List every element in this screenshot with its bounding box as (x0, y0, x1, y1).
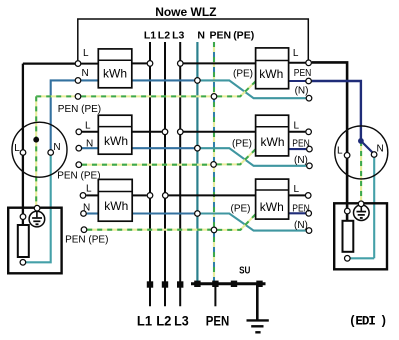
svg-text:L: L (337, 145, 343, 156)
svg-text:L3: L3 (174, 313, 189, 328)
svg-text:N: N (53, 142, 60, 153)
svg-text:L1: L1 (144, 30, 156, 42)
svg-text:(PE): (PE) (233, 30, 254, 42)
svg-text:PEN: PEN (206, 313, 230, 328)
svg-text:kWh: kWh (260, 200, 284, 214)
svg-text:): ) (380, 314, 388, 328)
svg-text:PEN: PEN (292, 139, 310, 150)
svg-text:(N): (N) (295, 86, 309, 97)
svg-text:N: N (197, 30, 205, 42)
svg-text:N: N (83, 202, 90, 213)
svg-text:PEN: PEN (294, 68, 312, 79)
svg-text:PEN: PEN (210, 30, 232, 42)
svg-text:(PE): (PE) (232, 139, 252, 150)
svg-text:N: N (377, 143, 384, 154)
svg-text:PEN (PE): PEN (PE) (57, 171, 100, 182)
svg-text:kWh: kWh (103, 66, 127, 80)
svg-text:L3: L3 (172, 30, 184, 42)
svg-text:PEN (PE): PEN (PE) (58, 104, 101, 115)
svg-text:L1: L1 (137, 313, 153, 328)
svg-text:Nowe WLZ: Nowe WLZ (155, 5, 216, 19)
svg-text:L: L (85, 120, 91, 131)
svg-text:L2: L2 (156, 313, 171, 328)
svg-text:kWh: kWh (261, 135, 285, 149)
svg-text:L: L (86, 184, 92, 195)
svg-text:(PE): (PE) (233, 68, 253, 79)
svg-text:(N): (N) (294, 155, 308, 166)
svg-text:PEN: PEN (292, 203, 310, 214)
svg-text:N: N (82, 68, 89, 79)
svg-text:kWh: kWh (104, 134, 128, 148)
svg-text:kWh: kWh (104, 199, 128, 213)
svg-text:L: L (294, 120, 300, 131)
svg-text:PEN (PE): PEN (PE) (65, 234, 108, 245)
svg-text:SU: SU (239, 266, 250, 277)
svg-text:L: L (294, 184, 300, 195)
svg-text:(N): (N) (294, 220, 308, 231)
svg-text:N: N (86, 138, 93, 149)
svg-text:L: L (83, 48, 89, 59)
svg-text:(EDI: (EDI (349, 314, 376, 328)
svg-text:kWh: kWh (259, 67, 283, 81)
svg-text:(PE): (PE) (231, 203, 251, 214)
svg-text:L: L (14, 143, 20, 154)
svg-text:L: L (293, 48, 299, 59)
svg-text:L2: L2 (158, 30, 170, 42)
